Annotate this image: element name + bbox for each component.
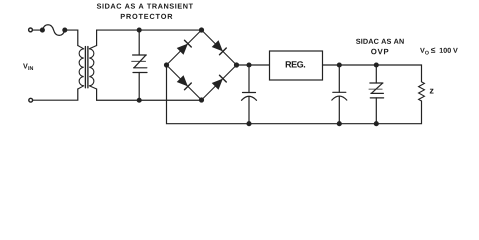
node SIDAC1 bottom junction	[137, 98, 142, 103]
SIDAC 2	[369, 83, 384, 98]
wire fuse to transformer primary top	[65, 30, 78, 45]
diode D4 bottom-right	[212, 75, 227, 90]
wire top terminal to fuse	[33, 29, 43, 31]
label VIN	[23, 64, 33, 70]
diode D1 top-left	[177, 40, 192, 55]
node SIDAC1 top junction	[137, 28, 142, 33]
fuse F1	[42, 25, 64, 36]
capacitor C1	[242, 65, 257, 124]
wire bridge right corner to REG input	[237, 64, 270, 66]
capacitor C2	[332, 65, 347, 124]
diode D2 top-right	[212, 40, 227, 55]
wire bridge left corner down to ground rail	[167, 65, 250, 124]
input terminal bottom	[29, 98, 33, 102]
input terminal top	[29, 28, 33, 32]
label VO <= 100 V	[420, 47, 458, 54]
wire bottom terminal to transformer primary bottom	[33, 89, 78, 100]
label SIDAC as an OVP	[356, 39, 404, 44]
node bridge bottom corner	[199, 97, 204, 102]
load resistor Z	[419, 82, 425, 101]
diode D3 bottom-left	[177, 75, 192, 90]
wire SIDAC1 bottom lead	[138, 73, 140, 101]
node C2 bottom junction	[337, 121, 342, 126]
transformer T1 primary winding	[78, 46, 84, 90]
node C2 top junction	[337, 62, 342, 67]
fuse node right	[62, 28, 67, 33]
wire secondary bottom to bridge bottom corner	[97, 89, 202, 100]
bridge rectifier diamond wires	[167, 30, 237, 100]
wire SIDAC1 top lead	[138, 30, 140, 55]
wire SIDAC2 bottom lead	[375, 98, 377, 124]
label z	[430, 89, 434, 94]
node C1 top junction	[246, 62, 251, 67]
label REG.	[286, 61, 305, 67]
wire REG output rail	[323, 65, 422, 82]
wire SIDAC2 top lead	[375, 65, 377, 83]
fuse node left	[40, 28, 45, 33]
node bridge right corner	[234, 62, 239, 67]
node SIDAC2 top junction	[374, 62, 379, 67]
node C1 bottom junction	[246, 121, 251, 126]
SIDAC 1	[132, 55, 147, 73]
node bridge left corner	[164, 62, 169, 67]
node SIDAC2 bottom junction	[374, 121, 379, 126]
wire secondary top to bridge top corner	[97, 30, 202, 45]
label SIDAC as a transient protector	[97, 4, 193, 9]
regulator U1 box	[270, 51, 323, 80]
transformer T1 secondary winding	[89, 46, 96, 90]
transformer T1 core	[85, 47, 88, 88]
ground rail right section	[249, 101, 422, 124]
node bridge top corner	[199, 27, 204, 32]
